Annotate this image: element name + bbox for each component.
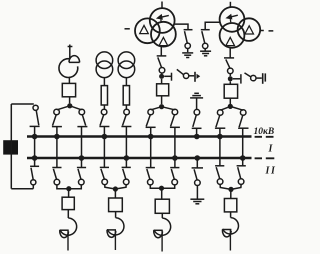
node on bus I at x=104.4: [102, 134, 108, 140]
voltage transformer TV1: [96, 52, 113, 78]
transformer T1 LV winding a (circle with delta): [135, 18, 160, 43]
wire: column at x=104.4: [103, 127, 105, 168]
feeder 2 lower disconnector from bus I: [100, 167, 109, 184]
circuit breaker Q1 of T1 input: [157, 79, 169, 104]
node: feeder 1 junction: [66, 186, 71, 191]
wire: column at x=56.9: [56, 127, 58, 168]
circuit breaker Q3 of left feeder: [62, 77, 75, 103]
transformer T1 tap-changer arrow: [156, 14, 169, 23]
bus disconnector QS9 (T1 to bus I): [146, 109, 156, 127]
earthing switch QE2 on T2 input (horizontal): [233, 73, 265, 84]
circuit breaker Q5 of feeder 2: [109, 189, 123, 212]
wire: left feeder lead down: [69, 45, 71, 59]
svg-text:II: II: [265, 166, 277, 177]
cable termination of feeder 4: [222, 212, 238, 251]
circuit breaker Q7 of feeder 4: [224, 189, 236, 212]
circuit breaker Q6 of feeder 3: [155, 188, 169, 213]
node on bus I at x=56.9: [54, 134, 60, 140]
wire: feeder 2 join rail: [105, 185, 127, 189]
node on bus II at x=81.5: [79, 155, 85, 161]
circuit breaker Q4 of feeder 1: [62, 189, 74, 210]
bus II earthing switch QE4: [192, 158, 203, 199]
earthing switch QN2 of T2 neutral: [201, 30, 210, 51]
node on bus II at x=34.6: [32, 155, 38, 161]
node on bus II at x=174.9: [172, 155, 178, 161]
bus disconnector QS3 (left entry to bus I): [30, 105, 40, 126]
fuse F1 of TV1: [101, 78, 107, 110]
wire: T2 right stub and dash: [260, 30, 273, 32]
wire: left feeder lambda arms: [57, 106, 82, 110]
feeder 1 lower disconnector from bus II: [77, 168, 86, 185]
dashed continuation of bus I: [255, 136, 274, 138]
left feeder terminal tick: [68, 46, 73, 48]
node: T2 split to bus disconnectors: [228, 104, 233, 109]
transformer T2 HV winding (circle with tap arrow): [220, 7, 245, 32]
ground of bus II earthing switch: [190, 199, 204, 204]
earthing switch QN1 of T1 neutral: [184, 30, 193, 53]
wire: left entry bottom rail: [11, 188, 33, 190]
incoming cable box (black square, left wall entry): [3, 140, 18, 154]
busbar section I (10 kV): [27, 135, 252, 138]
node on bus II at x=242.7: [240, 155, 246, 161]
disconnector QS1 under transformer T1: [157, 47, 167, 75]
bus disconnector QS7 (TV1 to bus I): [99, 109, 109, 126]
bus disconnector QS5 (left feeder to bus I): [52, 109, 62, 126]
wire: column at x=34.6 linking both buses: [34, 126, 36, 166]
earthing switch QE1 on T1 input (horizontal): [164, 69, 200, 81]
bus disconnector QS4 (left entry to bus II): [30, 166, 39, 188]
bus disconnector QS6 (left feeder to bus II): [77, 109, 87, 126]
node on bus I at x=196.8: [194, 134, 200, 140]
bus disconnector QS10 (T1 to bus II): [170, 109, 180, 127]
bus disconnector QS12 (T2 to bus II): [238, 110, 248, 129]
ground of T1 neutral earthing switch: [182, 53, 193, 58]
wire: column at x=150.7: [150, 127, 152, 167]
wire: feeder 4 join rail: [220, 184, 241, 189]
feeder 4 lower disconnector from bus I: [215, 166, 224, 185]
wire: column at x=242.7: [242, 128, 244, 166]
wire: T1 HV lead up: [161, 2, 163, 9]
ground of T2 neutral earthing switch: [200, 51, 211, 56]
transformer T1 HV winding (circle with tap arrow): [150, 8, 175, 33]
wire: column at x=81.5: [81, 127, 83, 168]
transformer T2 LV winding b (circle with delta): [220, 23, 245, 48]
bus disconnector QS8 (TV2 to bus II): [121, 109, 131, 126]
disconnector QS2 under transformer T2: [224, 48, 234, 76]
node on bus I at x=34.6: [32, 134, 38, 140]
wire: T2 neutral lead to earthing switch: [205, 22, 220, 29]
node: left feeder split to bus disconnectors: [67, 103, 72, 108]
wire: left entry riser: [10, 104, 12, 189]
delta symbol in T2 winding b: [226, 37, 235, 45]
wire: column at x=126.4: [125, 127, 127, 168]
node on bus II at x=197.3: [195, 155, 201, 161]
circuit breaker Q2 of T2 input: [224, 81, 237, 104]
cable termination of feeder 2: [107, 212, 124, 250]
node on bus I at x=150.7: [148, 134, 154, 140]
feeder 3 lower disconnector from bus I: [146, 168, 155, 185]
wire: column at x=174.9: [174, 127, 176, 167]
node: T1 split to bus disconnectors: [159, 104, 164, 109]
transformer T2 tap-changer arrow: [225, 14, 237, 23]
node: feeder 2 junction: [113, 186, 118, 191]
wire: column at x=219.9: [219, 128, 221, 166]
delta symbol in T1 winding a: [140, 25, 149, 33]
node on bus I at x=219.9: [217, 134, 223, 140]
fuse F2 of TV2: [123, 78, 129, 110]
bus disconnector QS11 (T2 to bus I): [215, 110, 225, 129]
wire: T1 left stub dash: [125, 28, 130, 30]
delta symbol in T1 winding b: [159, 37, 168, 45]
feeder 3 lower disconnector from bus II: [170, 168, 179, 185]
busbar section II (10 kV): [27, 157, 252, 160]
feeder 1 lower disconnector from bus I: [52, 168, 61, 185]
transformer T2 LV winding a (circle with delta): [238, 18, 261, 41]
wire: feeder 1 join rail: [57, 185, 81, 189]
node on bus II at x=126.4: [124, 155, 130, 161]
wire: T1 lambda arms: [151, 107, 175, 110]
dashed continuation of bus II: [255, 157, 275, 159]
node: T2 junction above breaker: [228, 76, 233, 81]
transformer T1 LV winding b (circle with delta): [151, 22, 176, 47]
delta symbol in T2 winding a: [245, 26, 254, 34]
svg-text:10кВ: 10кВ: [254, 127, 275, 137]
bus I earthing switch QE3: [192, 98, 202, 135]
wire: feeder 3 join rail: [150, 185, 174, 188]
cable termination of feeder 3: [154, 213, 171, 251]
wire: T2 HV lead up: [229, 2, 231, 8]
feeder 4 lower disconnector from bus II: [237, 166, 246, 185]
node: feeder 4 junction: [228, 187, 233, 192]
feeder 2 lower disconnector from bus II: [122, 167, 131, 184]
node: feeder 3 junction: [159, 186, 164, 191]
arrester symbol of left feeder (circle with semicircle): [59, 56, 80, 78]
wire: T1 neutral lead to earthing switch: [175, 24, 188, 29]
wire: T2 lambda arms: [221, 106, 244, 110]
cable termination of feeder 1: [60, 210, 77, 251]
node: T1 junction above breaker: [159, 74, 164, 79]
wire: left entry top rail: [11, 103, 34, 105]
ground of bus I earthing switch (inverted): [190, 93, 203, 98]
voltage transformer TV2: [118, 52, 135, 78]
